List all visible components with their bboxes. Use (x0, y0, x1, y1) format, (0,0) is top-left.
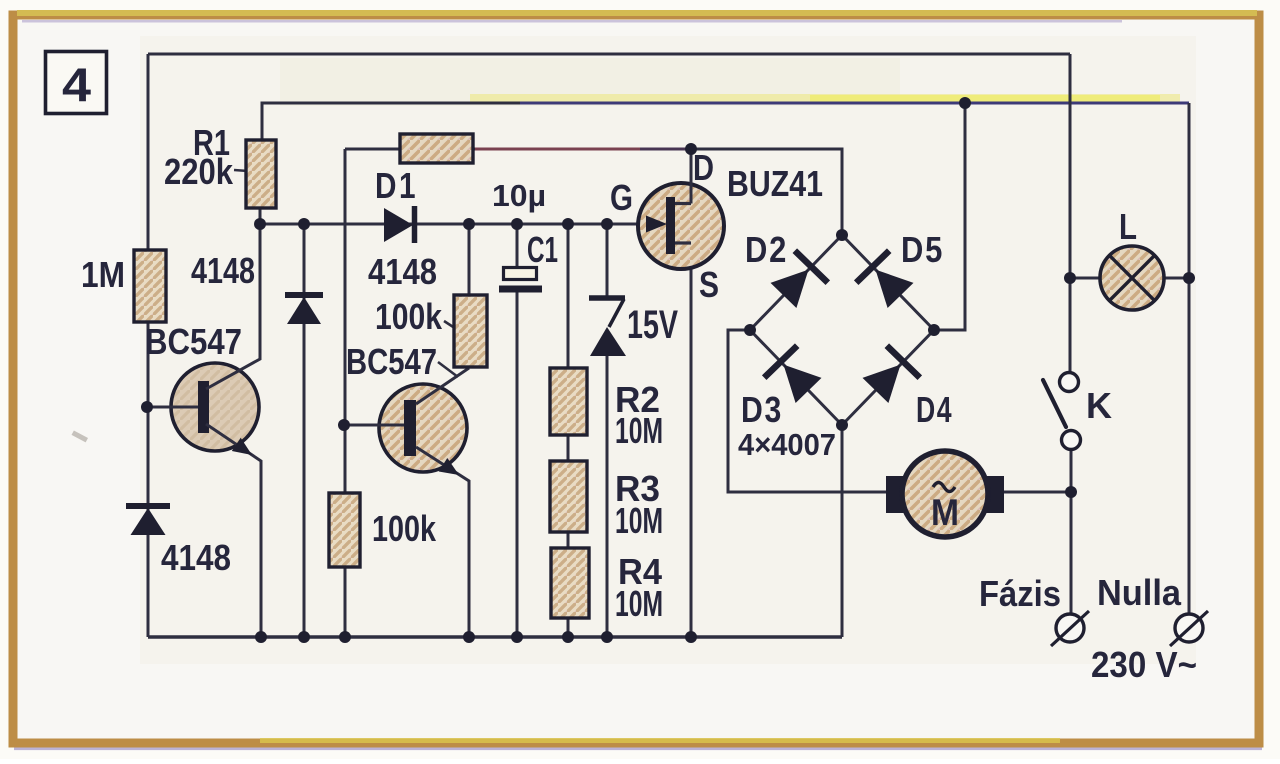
junction dots gate bus (254, 218, 266, 230)
junction dot Q2 base (338, 419, 350, 431)
diode D5 (876, 270, 914, 308)
junction dot motor/switch node (1065, 486, 1077, 498)
svg-text:10M: 10M (615, 410, 663, 451)
terminal Fazis (1056, 614, 1084, 642)
motor M (886, 476, 906, 513)
svg-text:1M: 1M (81, 254, 125, 295)
svg-text:D2: D2 (745, 229, 788, 270)
wire R2 chain leads (567, 224, 570, 368)
diode D7 4148 (emitter, left rail) (126, 503, 170, 509)
scan artifact smear (470, 94, 1180, 102)
svg-text:S: S (699, 264, 719, 305)
wire bottom common rail (148, 635, 842, 638)
wire second rail (to R1 and right side) (262, 103, 520, 140)
wire MOSFET source lead (690, 243, 693, 637)
svg-text:C1: C1 (527, 229, 558, 270)
label leader 220k to R1 (234, 170, 248, 171)
svg-text:D1: D1 (375, 165, 418, 206)
junction dots bottom rail (255, 631, 267, 643)
svg-text:4148: 4148 (368, 251, 437, 292)
bridge rectifier frame (750, 235, 934, 425)
wire lamp leads (1070, 277, 1101, 280)
wire gate bus (260, 223, 648, 226)
svg-text:100k: 100k (372, 508, 437, 549)
svg-text:BC547: BC547 (145, 321, 242, 362)
terminal Nulla (1175, 614, 1203, 642)
MOSFET U1 BUZ41 (638, 183, 724, 269)
zener diode 15V (589, 295, 625, 301)
resistor R2 (550, 368, 587, 435)
svg-text:Nulla: Nulla (1097, 572, 1182, 613)
svg-text:BC547: BC547 (346, 341, 437, 382)
svg-text:220k: 220k (164, 151, 234, 192)
wire top supply rail (148, 53, 1070, 56)
svg-text:D5: D5 (901, 229, 944, 270)
wire left rail (147, 54, 150, 252)
diode D1 4148 (384, 208, 413, 242)
svg-text:4: 4 (62, 58, 91, 111)
wire drain bus (345, 149, 842, 235)
wire lamp branch vertical (1069, 54, 1072, 373)
svg-text:10M: 10M (615, 500, 663, 541)
svg-text:10µ: 10µ (492, 178, 546, 213)
lamp L (1100, 246, 1164, 310)
svg-text:4148: 4148 (161, 537, 231, 578)
svg-text:BUZ41: BUZ41 (727, 163, 823, 204)
svg-text:G: G (610, 177, 633, 218)
diode D6 4148 (collector clamp) (285, 292, 323, 298)
resistor R1 (246, 140, 276, 208)
resistor feedback (horizontal, unlabeled) (400, 134, 473, 163)
svg-text:D: D (693, 147, 714, 188)
wire R1 bottom lead (259, 208, 262, 224)
wire 100k top lead (468, 224, 471, 295)
svg-text:Fázis: Fázis (979, 573, 1061, 614)
wire right rail (Nulla side) (1188, 103, 1191, 614)
wire bridge bottom vertex to common rail (841, 425, 844, 637)
resistor 100k (base to ground) (329, 493, 360, 567)
junction dot second rail (959, 97, 971, 109)
svg-text:4×4007: 4×4007 (738, 427, 836, 462)
label leader BC547 to Q2 (438, 362, 458, 377)
wire zener column (606, 224, 609, 298)
junction dot Q1 base (141, 401, 153, 413)
junction dots bridge vertices (836, 229, 848, 241)
wire bridge left vertex to motor (728, 330, 886, 492)
wire C1 leads (516, 224, 519, 267)
resistor 1M (in left rail) (134, 250, 166, 322)
junction dot drain bus (685, 143, 697, 155)
junction dots lamp node (1064, 272, 1076, 284)
diode D4 (863, 365, 901, 403)
transistor Q1 BC547 (171, 363, 259, 451)
svg-text:D4: D4 (916, 389, 953, 430)
svg-text:10M: 10M (615, 583, 663, 624)
label leader 100k to resistor (444, 321, 467, 336)
svg-text:K: K (1086, 385, 1112, 426)
resistor R3 (550, 461, 587, 532)
transistor Q2 BC547 (379, 384, 467, 472)
svg-text:D3: D3 (741, 389, 783, 430)
svg-text:M: M (931, 492, 959, 533)
wire switch to motor node to Fazis (1070, 449, 1073, 613)
switch K (1060, 373, 1079, 392)
diode D3 (784, 365, 822, 403)
diode D2 (771, 270, 809, 308)
wire bridge right vertex riser (934, 103, 965, 330)
wire diode D6 column x=304 (303, 224, 306, 637)
svg-text:15V: 15V (627, 303, 678, 347)
resistor R4 (551, 548, 589, 618)
figure label 4 (46, 52, 107, 114)
wire feedback column x=345 (344, 149, 347, 493)
svg-text:4148: 4148 (191, 250, 255, 291)
svg-text:100k: 100k (375, 296, 443, 337)
resistor 100k (collector load) (454, 295, 487, 367)
wire motor right lead (1004, 491, 1071, 494)
svg-text:L: L (1119, 206, 1137, 247)
capacitor C1 10u (504, 268, 537, 280)
svg-text:230 V~: 230 V~ (1091, 644, 1197, 685)
